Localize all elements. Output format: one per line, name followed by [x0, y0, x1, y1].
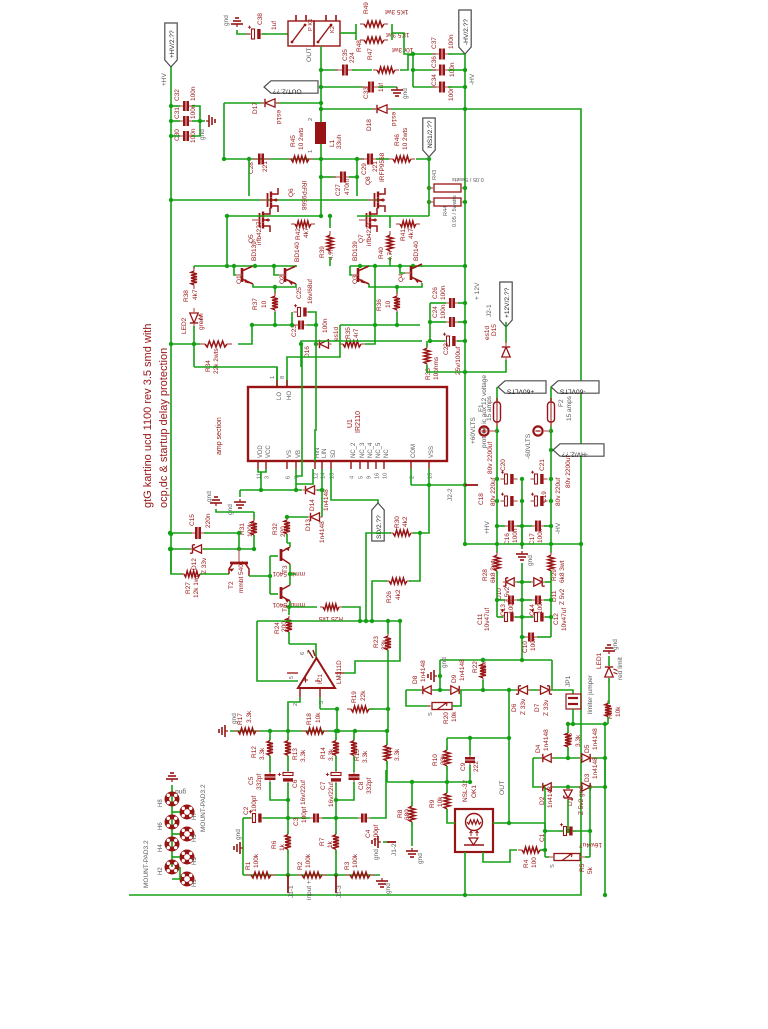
- svg-text:R28: R28: [482, 569, 489, 581]
- flag -HV/2.??: [459, 10, 471, 54]
- wire -60 rail into protection: [550, 501, 552, 553]
- svg-text:C21: C21: [539, 459, 546, 471]
- wire C38 to relay K1: [262, 33, 288, 35]
- svg-text:100k: 100k: [352, 853, 359, 868]
- wire level shifter column: [269, 556, 271, 594]
- svg-text:R41: R41: [400, 229, 407, 241]
- svg-text:4k2: 4k2: [402, 516, 409, 527]
- resistor R28 6k8 3wt: [496, 552, 498, 555]
- resistor R18 10k: [302, 730, 306, 732]
- ground J1-2: [383, 841, 387, 843]
- svg-text:C17: C17: [529, 533, 536, 545]
- svg-text:IRFP9568: IRFP9568: [300, 181, 307, 211]
- wire left gate coupling: [248, 159, 250, 196]
- svg-text:gnd: gnd: [527, 555, 534, 566]
- svg-text:R47: R47: [367, 48, 374, 60]
- svg-text:gnd: gnd: [612, 639, 619, 650]
- svg-text:LED2: LED2: [181, 317, 188, 334]
- svg-text:R19: R19: [351, 691, 358, 703]
- wire row 688 left end down: [406, 690, 430, 706]
- resistor R30 4k2: [389, 532, 393, 534]
- svg-text:Q3: Q3: [352, 275, 359, 284]
- svg-text:D12: D12: [191, 558, 198, 570]
- svg-text:0.05 / 5watts: 0.05 / 5watts: [452, 195, 458, 227]
- wire mid node stub: [290, 573, 296, 575]
- svg-text:H7: H7: [192, 812, 198, 820]
- capacitor C17 100n: [531, 525, 535, 527]
- resistor R40 4.7r: [389, 216, 391, 228]
- svg-text:100n: 100n: [530, 636, 537, 651]
- svg-text:C30: C30: [174, 129, 181, 141]
- svg-text:4k7: 4k7: [192, 289, 199, 300]
- svg-text:S: S: [428, 712, 434, 716]
- svg-text:C10: C10: [522, 641, 529, 653]
- wire phase to driver left: [226, 216, 228, 266]
- resistor R8 680: [411, 802, 413, 806]
- resistor R22 33k: [482, 660, 484, 664]
- svg-text:16v/22uf: 16v/22uf: [328, 782, 335, 807]
- svg-text:D8: D8: [412, 675, 419, 684]
- svg-text:R12: R12: [251, 746, 258, 758]
- svg-text:NC: NC: [384, 449, 390, 458]
- wire output row to IC1 left: [257, 621, 298, 681]
- svg-text:10 2wts: 10 2wts: [402, 127, 409, 150]
- wire +60 rail into protection: [496, 501, 498, 553]
- svg-text:C2: C2: [243, 806, 250, 815]
- wire T1 emitter node: [289, 601, 290, 607]
- svg-text:gnd: gnd: [206, 491, 213, 502]
- capacitor C26 100n: [445, 302, 449, 304]
- svg-text:Z 33v: Z 33v: [520, 698, 527, 715]
- svg-text:Q7: Q7: [358, 234, 365, 243]
- svg-text:D3: D3: [584, 773, 591, 782]
- resistor R39 4.7r: [329, 216, 331, 228]
- wire row660 to D7: [551, 660, 553, 690]
- wire R33 bottom row: [427, 365, 465, 372]
- svg-text:C32: C32: [174, 89, 181, 101]
- shunt resistor R44 0.05/5watts: [434, 198, 461, 206]
- svg-text:100n: 100n: [440, 285, 447, 300]
- svg-text:2: 2: [293, 703, 299, 706]
- svg-text:Q6: Q6: [288, 188, 295, 197]
- wire -HV long branch to protection: [129, 109, 581, 895]
- svg-text:R34: R34: [205, 360, 212, 372]
- capacitor C30 100n: [179, 135, 183, 137]
- mount pad H1: [182, 874, 192, 884]
- svg-text:H2: H2: [158, 867, 164, 875]
- svg-text:222: 222: [473, 761, 480, 772]
- svg-text:C16: C16: [504, 533, 511, 545]
- ground above R31: [215, 503, 217, 506]
- svg-text:3.3k: 3.3k: [362, 750, 369, 763]
- svg-text:80v 2200uf: 80v 2200uf: [565, 456, 572, 488]
- svg-text:100k: 100k: [305, 853, 312, 868]
- svg-text:80v 220uf: 80v 220uf: [490, 477, 497, 506]
- svg-text:221: 221: [372, 161, 379, 172]
- supply circle -60VLTS: [550, 426, 552, 431]
- wire row 660: [440, 659, 552, 661]
- resistor R48 1K5 3wt: [360, 39, 364, 41]
- svg-text:limiter jumper: limiter jumper: [587, 674, 594, 714]
- resistor R14 3.3k: [335, 737, 337, 741]
- transistor T3 mmbt5401: [270, 555, 278, 557]
- wire gate mid row left py325: [252, 324, 294, 326]
- wire R19 row: [336, 709, 338, 731]
- capacitor C4 100pf: [336, 817, 358, 819]
- svg-text:12k 1wt: 12k 1wt: [193, 575, 200, 598]
- svg-text:SD/2.??: SD/2.??: [376, 515, 383, 539]
- svg-text:D4: D4: [535, 744, 542, 753]
- svg-text:T2: T2: [228, 581, 235, 589]
- svg-text:1n4148: 1n4148: [592, 728, 599, 750]
- zener D7 Z 33v: [541, 686, 550, 694]
- svg-text:220: 220: [280, 526, 287, 537]
- wire through box VB bootstrap: [296, 344, 302, 476]
- mosfet Q6 IRFP9568: [267, 193, 269, 207]
- svg-text:MOUNT-PAD3.2: MOUNT-PAD3.2: [143, 840, 150, 888]
- svg-text:R7: R7: [319, 837, 326, 846]
- wire IC1 -input down: [319, 697, 321, 709]
- svg-text:4r7: 4r7: [353, 328, 360, 338]
- wire input row 875: [243, 874, 380, 876]
- svg-text:6: 6: [300, 652, 306, 655]
- svg-text:C5: C5: [248, 776, 255, 785]
- resistor R4 100: [518, 849, 522, 851]
- svg-text:es1d: es1d: [390, 112, 397, 126]
- flag -HV/2.?? at -60 rail: [553, 444, 604, 456]
- svg-text:25v/100uf: 25v/100uf: [455, 346, 462, 375]
- svg-text:C3: C3: [293, 817, 300, 826]
- svg-text:C4: C4: [365, 829, 372, 838]
- svg-text:gnd: gnd: [402, 88, 409, 99]
- wire ladder row 758: [533, 757, 605, 759]
- mount pad H2: [167, 862, 177, 872]
- capacitor C37 100n: [413, 53, 436, 55]
- svg-text:332pf: 332pf: [256, 774, 263, 790]
- svg-text:5: 5: [289, 676, 295, 679]
- wire row 738: [447, 737, 509, 739]
- transistor T1 mmbt5401: [270, 593, 278, 595]
- capacitor C31 100n: [179, 120, 183, 122]
- svg-text:COM: COM: [411, 444, 417, 458]
- svg-text:1: 1: [308, 150, 314, 153]
- svg-text:NC_5: NC_5: [376, 442, 382, 458]
- inductor L1 33uh: [315, 122, 326, 144]
- svg-text:3.3k: 3.3k: [246, 710, 253, 723]
- wire +60 rail down: [496, 431, 498, 501]
- svg-text:D5: D5: [584, 744, 591, 753]
- svg-text:MOUNT-PAD3.2: MOUNT-PAD3.2: [200, 784, 207, 832]
- wire T2 collector to level shifter: [249, 575, 270, 577]
- svg-text:2: 2: [308, 118, 314, 121]
- capacitor C6 16v/22uf: [283, 773, 293, 776]
- svg-text:OUT: OUT: [306, 48, 313, 62]
- svg-text:R6: R6: [271, 840, 278, 849]
- capacitor C38 1uf: [252, 29, 255, 39]
- svg-text:R15: R15: [354, 749, 361, 761]
- led LED2 green: [190, 313, 198, 323]
- resistor R21 10k: [607, 701, 609, 704]
- svg-text:100n: 100n: [448, 86, 455, 101]
- svg-text:D7: D7: [534, 703, 541, 712]
- svg-text:10v47uf: 10v47uf: [561, 608, 568, 631]
- wire bypass cap right bus: [192, 106, 200, 136]
- wire phase row py216 left: [227, 215, 321, 217]
- zener D11 Z 5v2: [534, 578, 542, 586]
- svg-text:C18: C18: [478, 493, 485, 505]
- wire HO to right mid: [287, 325, 340, 387]
- wire C1 columns: [544, 787, 546, 857]
- wire T3/T1 collector join: [289, 564, 291, 585]
- mount pad H5: [182, 829, 192, 839]
- ground between D8/D9: [438, 675, 440, 677]
- svg-text:S: S: [550, 864, 556, 868]
- svg-text:es1d: es1d: [333, 327, 340, 341]
- capacitor C18 80v 220uf: [505, 496, 508, 506]
- svg-text:JP1: JP1: [565, 675, 572, 687]
- svg-text:R36: R36: [376, 299, 383, 311]
- resistor R49 1K5 3wt: [360, 23, 364, 25]
- resistor R10 33k: [446, 746, 448, 750]
- svg-text:VDD: VDD: [258, 445, 264, 458]
- svg-text:OUT: OUT: [499, 781, 506, 795]
- svg-text:R33: R33: [425, 368, 432, 380]
- svg-text:R4: R4: [523, 859, 530, 868]
- svg-text:BD139: BD139: [352, 241, 359, 261]
- svg-text:100n: 100n: [190, 86, 197, 101]
- svg-text:100k: 100k: [247, 522, 254, 537]
- svg-text:1: 1: [336, 675, 342, 678]
- svg-text:LIN: LIN: [322, 449, 328, 458]
- svg-text:gnd: gnd: [235, 829, 242, 840]
- resistor R37 10: [274, 287, 276, 294]
- wire phase row right: [357, 215, 429, 217]
- ground after C33: [378, 86, 397, 88]
- svg-text:NC_3: NC_3: [360, 442, 366, 458]
- resistor R3 100k: [345, 874, 350, 876]
- flag OUT/2.??: [264, 81, 318, 93]
- diode D14 1n4148: [306, 486, 315, 494]
- flag +60VLTS: [498, 381, 546, 393]
- svg-text:680: 680: [404, 809, 411, 820]
- svg-text:3.3k: 3.3k: [300, 749, 307, 762]
- svg-text:red limit: red limit: [617, 657, 624, 680]
- svg-text:100pf: 100pf: [373, 825, 380, 841]
- wire ladder row 787: [533, 758, 605, 787]
- svg-text:LO: LO: [277, 392, 283, 400]
- supply circle +60VLTS: [496, 426, 498, 431]
- svg-text:16: 16: [375, 473, 381, 479]
- svg-text:R27: R27: [185, 582, 192, 594]
- svg-text:Q4: Q4: [398, 273, 405, 282]
- wire gnd row to R31: [216, 509, 254, 512]
- resistor R32 220: [286, 518, 288, 520]
- svg-text:gtG kartino ucd 1100 rev 3.5 s: gtG kartino ucd 1100 rev 3.5 smd with: [142, 324, 154, 508]
- wire opto column: [508, 690, 510, 823]
- capacitor C29 221: [357, 158, 364, 160]
- wire comparator output row: [257, 620, 400, 622]
- svg-text:16v/22uf: 16v/22uf: [300, 780, 307, 805]
- svg-text:es1d: es1d: [275, 110, 282, 124]
- svg-text:-HV: -HV: [555, 522, 562, 534]
- trimmer R5 5k: [554, 854, 580, 861]
- jumper JP1 limiter: [566, 690, 573, 694]
- svg-text:NC_2: NC_2: [351, 442, 357, 458]
- svg-text:+HV: +HV: [484, 521, 491, 534]
- svg-text:C11: C11: [477, 613, 484, 625]
- svg-text:1k: 1k: [327, 840, 334, 848]
- svg-text:C36: C36: [431, 56, 438, 68]
- transistor Q1 BD139: [241, 268, 244, 282]
- wire aux ground row 544: [465, 543, 581, 545]
- svg-text:1n4148: 1n4148: [323, 489, 330, 511]
- flag -60VLTS: [551, 381, 599, 393]
- svg-text:R29: R29: [551, 569, 558, 581]
- capacitor C28 221: [251, 158, 258, 160]
- svg-text:R32: R32: [272, 523, 279, 535]
- resistor R34 22k 2wts: [171, 343, 200, 345]
- svg-text:C34: C34: [431, 74, 438, 86]
- svg-text:C7: C7: [320, 781, 327, 790]
- svg-text:C24: C24: [432, 306, 439, 318]
- resistor R31 100k: [253, 512, 255, 520]
- fuse F2 15 amps: [550, 387, 552, 401]
- svg-text:100n: 100n: [508, 599, 515, 614]
- svg-text:R1: R1: [245, 861, 252, 870]
- resistor R15 3.3k: [353, 737, 355, 741]
- diode D8 1n4148: [423, 686, 431, 694]
- svg-text:Z 33v: Z 33v: [201, 557, 208, 574]
- svg-text:ocp,dc & startup delay protect: ocp,dc & startup delay protection: [158, 348, 170, 508]
- svg-text:470nf: 470nf: [344, 179, 351, 195]
- relay top pin stubs: [295, 15, 297, 21]
- capacitor C13 100n: [505, 599, 508, 601]
- capacitor C20 80v 2200uf: [505, 474, 508, 484]
- resistor R2 100k: [297, 874, 302, 876]
- svg-text:R39: R39: [319, 246, 326, 258]
- svg-text:1n4148: 1n4148: [420, 660, 427, 682]
- svg-text:0.05 / 5watts: 0.05 / 5watts: [452, 176, 484, 182]
- resistor R11 3.3k: [386, 741, 388, 745]
- svg-text:4k7: 4k7: [408, 228, 415, 239]
- mount pad H6: [167, 817, 177, 827]
- svg-text:+60VLTS: +60VLTS: [506, 387, 534, 394]
- mosfet Q5 irfb4227: [259, 213, 261, 227]
- diode D9 1n4148: [451, 686, 459, 694]
- fuse F1 15 amps: [496, 387, 498, 401]
- svg-text:D15: D15: [491, 324, 498, 336]
- wire relay K2 to R48/R49: [340, 32, 356, 34]
- capacitor C3 100pf: [288, 817, 310, 819]
- svg-text:+12V/2.??: +12V/2.??: [504, 287, 511, 318]
- svg-text:R22: R22: [472, 661, 479, 673]
- capacitor C2 100pf: [253, 814, 256, 823]
- svg-text:1K5 3wt: 1K5 3wt: [385, 8, 409, 15]
- wire LO to left mid: [194, 367, 277, 387]
- svg-text:R5: R5: [579, 863, 586, 872]
- wire gnd to C38: [237, 30, 250, 34]
- diode D3 1n4148: [582, 783, 590, 791]
- svg-text:BD140: BD140: [294, 242, 301, 262]
- svg-text:10 2wts: 10 2wts: [298, 127, 305, 150]
- svg-text:10k: 10k: [451, 711, 458, 722]
- ground R8: [411, 848, 413, 851]
- transistor T2 mmbt5401: [238, 549, 240, 563]
- wire row 690: [406, 689, 566, 691]
- svg-text:-60VLTS: -60VLTS: [559, 387, 585, 394]
- svg-text:C1: C1: [539, 833, 546, 842]
- comparator IC1 LM311D: [298, 658, 335, 688]
- wire T3 emitter to R32: [287, 543, 290, 547]
- svg-text:C27: C27: [335, 184, 342, 196]
- diode D2 1n4148: [543, 783, 551, 791]
- svg-text:NC_4: NC_4: [368, 442, 374, 458]
- svg-text:gnd: gnd: [385, 883, 392, 894]
- svg-text:HIN: HIN: [315, 448, 321, 458]
- svg-text:D14: D14: [309, 499, 316, 511]
- relay K2 contact: [314, 21, 340, 46]
- wire VDD feed from R33: [301, 341, 422, 344]
- svg-text:D9: D9: [451, 674, 458, 683]
- svg-text:R26: R26: [386, 591, 393, 603]
- svg-text:12: 12: [314, 473, 320, 479]
- zener D6 Z 33v: [519, 686, 528, 694]
- wire VS VB loop: [295, 469, 297, 490]
- svg-text:NSL-32: NSL-32: [462, 780, 469, 802]
- capacitor C5 332pf: [269, 770, 271, 774]
- wire input row 731: [230, 730, 387, 732]
- wire gate mid row right py325: [340, 324, 420, 326]
- resistor R38 4k7: [193, 266, 195, 269]
- wire LED node to LO row: [193, 344, 195, 367]
- resistor R26 4k2: [385, 580, 389, 582]
- wire SD to flag: [331, 469, 378, 503]
- wire OK1 right to comparator column: [493, 822, 509, 824]
- svg-text:-HV: -HV: [469, 73, 476, 85]
- wire +HV rail: [170, 67, 172, 573]
- svg-text:221: 221: [262, 161, 269, 172]
- svg-text:10: 10: [383, 473, 389, 479]
- svg-text:VS: VS: [287, 450, 293, 458]
- wire VDD VCC join: [258, 469, 266, 472]
- wire IC1 +input to input bus: [288, 697, 300, 731]
- capacitor C32 100n: [179, 105, 183, 107]
- svg-text:10: 10: [385, 300, 392, 308]
- svg-text:22k: 22k: [360, 690, 367, 701]
- zener D12 Z 33v: [168, 547, 172, 551]
- svg-text:100n: 100n: [322, 318, 329, 333]
- svg-text:gnd: gnd: [373, 849, 380, 860]
- wire ladder mid column: [521, 563, 523, 582]
- svg-text:amp section: amp section: [216, 417, 223, 455]
- wire driver rail left: [194, 265, 297, 267]
- svg-text:H3: H3: [192, 857, 198, 865]
- junction +HV/top-row: [169, 198, 173, 202]
- ground R17: [225, 730, 228, 732]
- svg-text:H6: H6: [158, 822, 164, 830]
- svg-text:gnd: gnd: [441, 657, 448, 668]
- svg-text:100pf: 100pf: [251, 796, 258, 812]
- wire through box HIN feedback: [315, 344, 316, 461]
- capacitor C36 100n: [413, 69, 436, 71]
- wire long bottom vertical right2: [604, 725, 606, 895]
- resistor R45 10 2wts: [287, 158, 291, 160]
- svg-text:BD139: BD139: [251, 241, 258, 261]
- svg-text:R42: R42: [295, 228, 302, 240]
- svg-text:10ohms: 10ohms: [433, 356, 440, 380]
- resistor R1 100k: [246, 874, 251, 876]
- capacitor C21 80v 2200uf: [535, 474, 538, 484]
